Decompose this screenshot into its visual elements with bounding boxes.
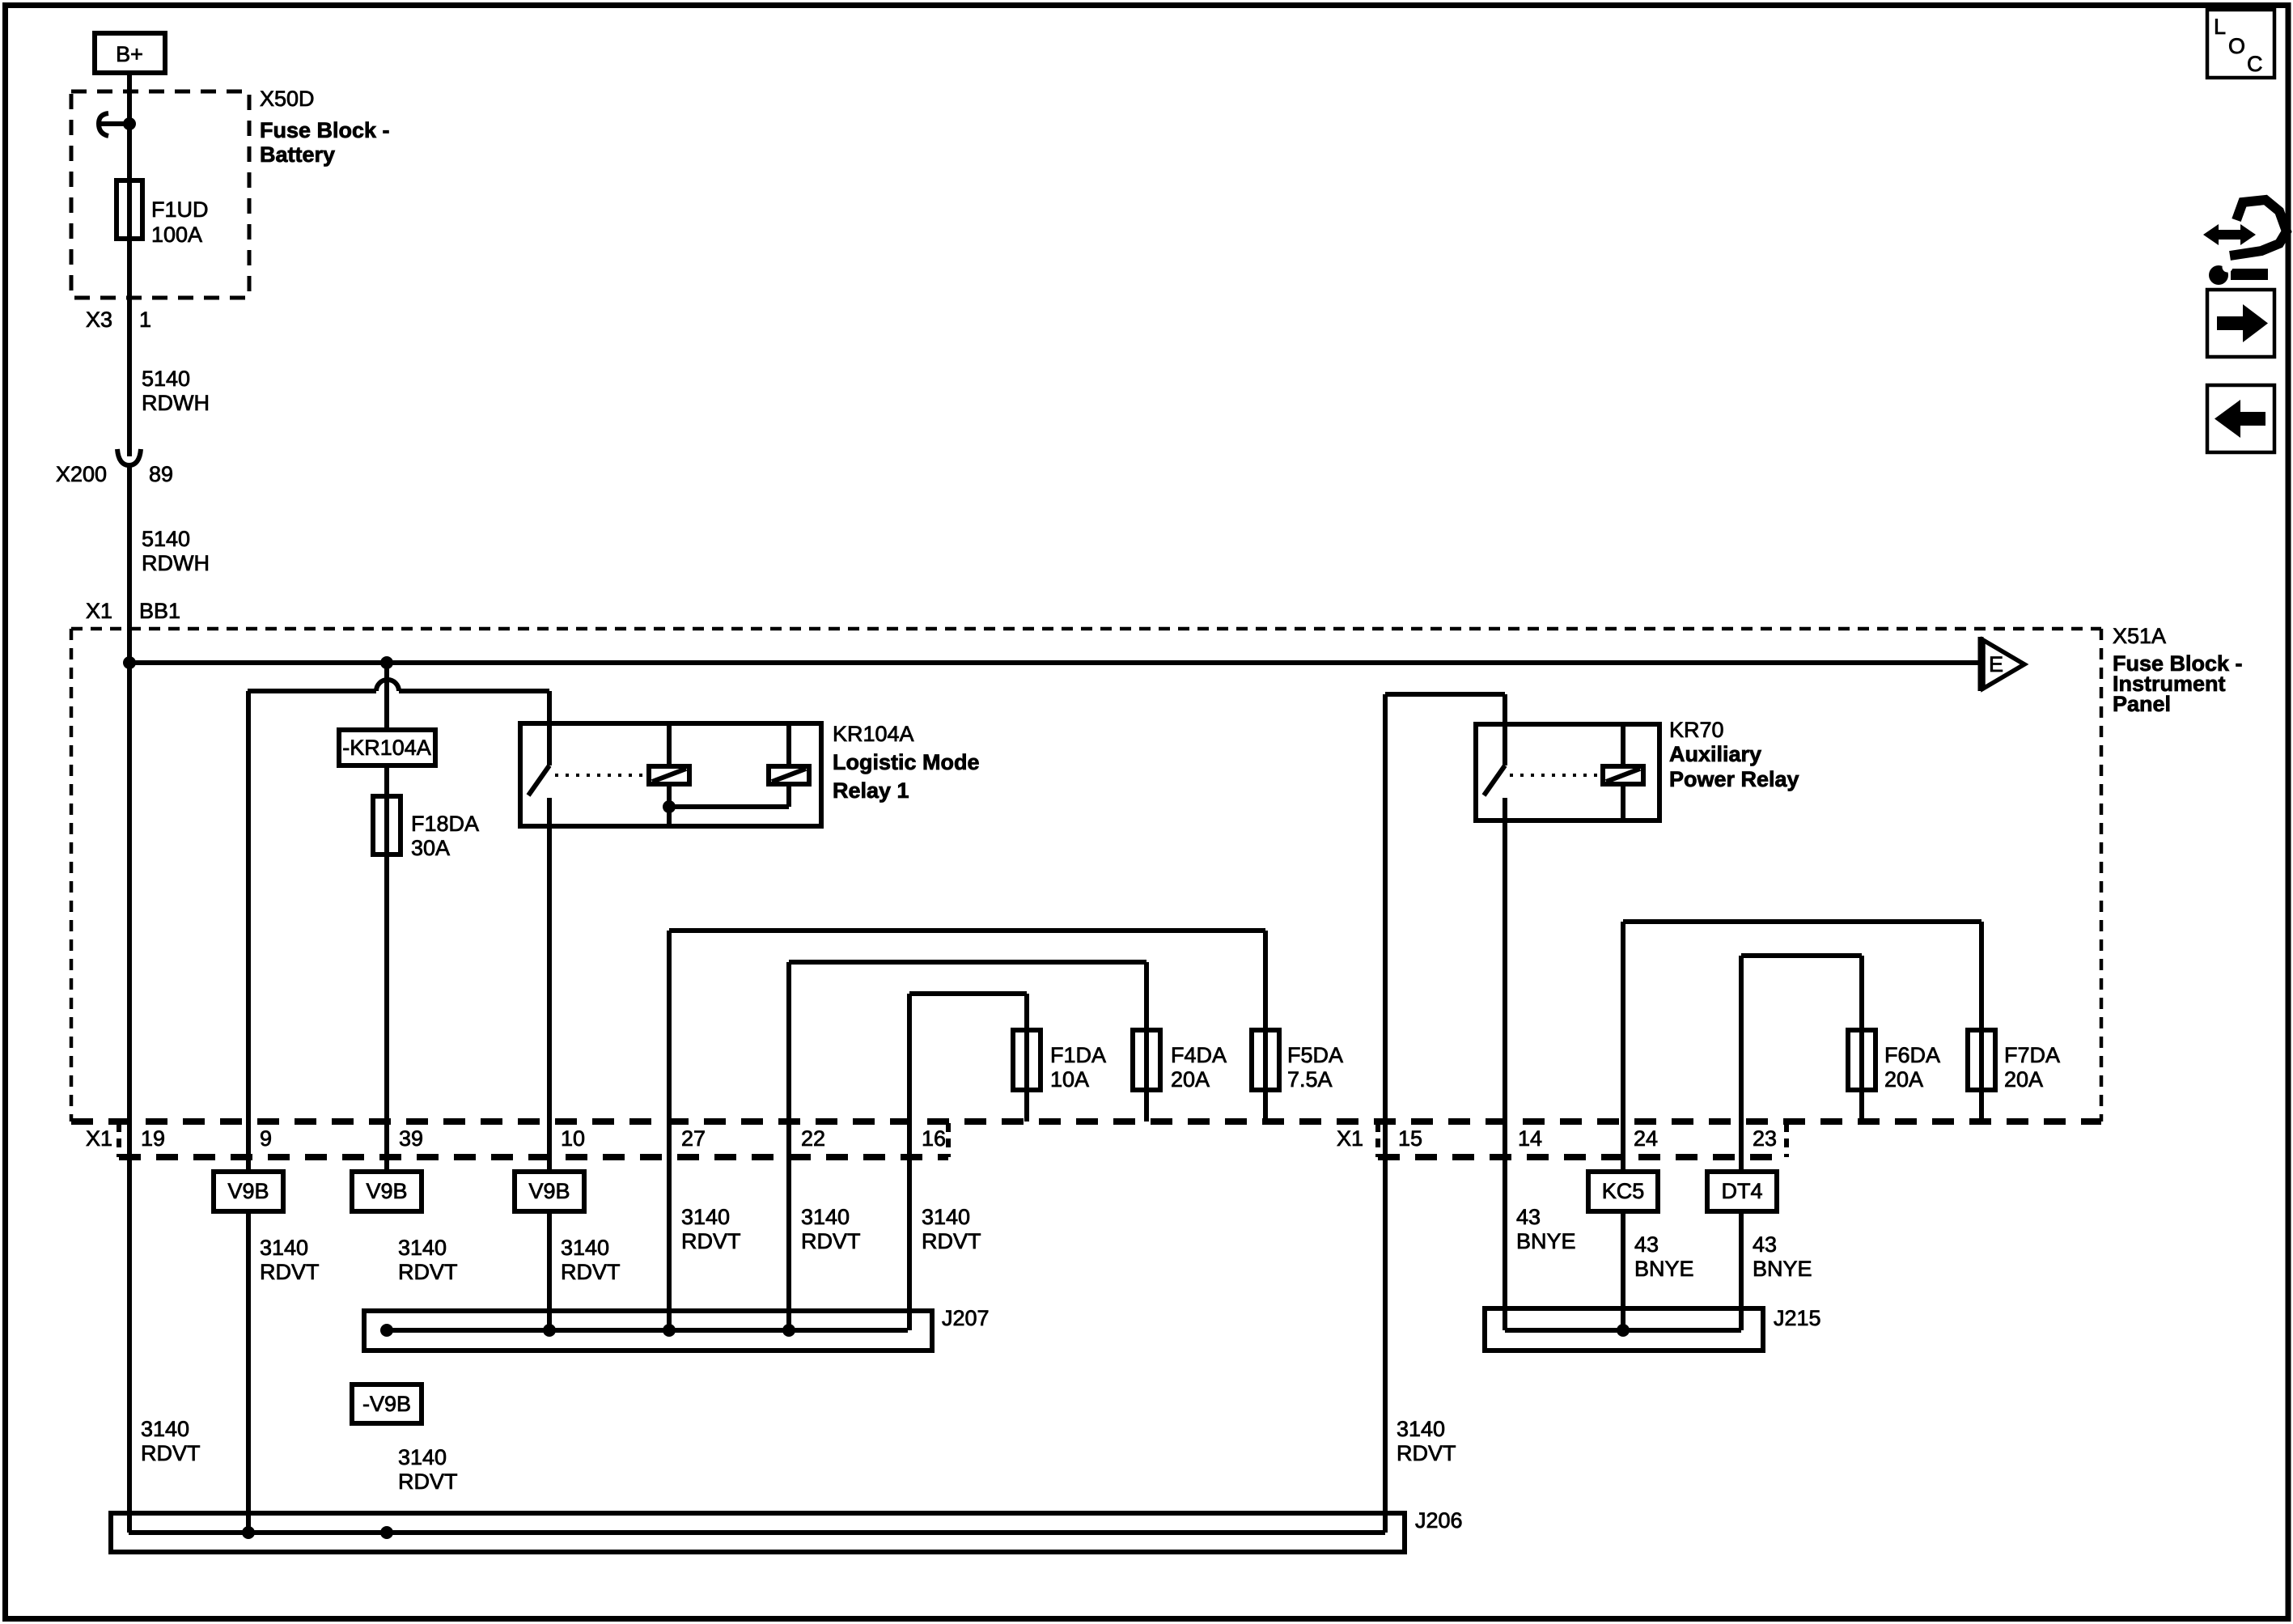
svg-text:24: 24 [1634, 1126, 1658, 1151]
junction dot bus left [123, 656, 136, 669]
svg-text:15: 15 [1398, 1126, 1422, 1151]
svg-text:RDVT: RDVT [561, 1260, 621, 1284]
off-page arrow E [1981, 637, 2024, 691]
svg-text:KR104A: KR104A [833, 722, 914, 746]
icon harness routing squiggle [2203, 200, 2287, 285]
wire staircase pin 23 to F6DA [1741, 956, 1862, 1122]
svg-text:RDVT: RDVT [1397, 1441, 1456, 1465]
option box DT4 pin 23 [1707, 1172, 1777, 1211]
wire staircase pin 16 to F1DA [909, 994, 1027, 1122]
svg-text:3140: 3140 [398, 1445, 447, 1469]
svg-text:X200: X200 [56, 462, 107, 486]
wire label 3140 RDVT pin 9 [260, 1236, 320, 1284]
svg-text:RDVT: RDVT [398, 1260, 458, 1284]
connector pins X1 BB1 [86, 599, 180, 623]
svg-text:RDWH: RDWH [142, 391, 210, 415]
wire relay KR70 output pin 14 [1503, 798, 1507, 1330]
svg-text:E: E [1989, 652, 2003, 676]
svg-text:43: 43 [1516, 1205, 1541, 1229]
svg-text:-KR104A: -KR104A [342, 736, 431, 760]
svg-text:43: 43 [1753, 1232, 1777, 1257]
svg-text:DT4: DT4 [1721, 1179, 1762, 1203]
fuse F18DA 30A [373, 796, 479, 860]
svg-text:3140: 3140 [141, 1417, 189, 1441]
wire pin 23 to J215 [1739, 1211, 1744, 1330]
label Fuse Block - Battery [260, 118, 390, 167]
svg-text:3140: 3140 [801, 1205, 850, 1229]
splice J206 [111, 1513, 1405, 1552]
svg-text:9: 9 [260, 1126, 272, 1151]
svg-text:16: 16 [922, 1126, 946, 1151]
junction dot at terminal [123, 117, 136, 130]
svg-text:3140: 3140 [922, 1205, 970, 1229]
icon arrow previous page [2207, 385, 2274, 452]
svg-text:RDVT: RDVT [922, 1229, 981, 1253]
svg-text:BNYE: BNYE [1516, 1229, 1576, 1253]
icon arrow next page [2207, 290, 2274, 357]
option box V9B pin 10 [515, 1172, 584, 1211]
splice J215 [1485, 1308, 1763, 1351]
svg-text:F4DA: F4DA [1171, 1043, 1227, 1067]
connector cap left [117, 1123, 121, 1157]
svg-text:C: C [2247, 52, 2263, 76]
svg-text:X50D: X50D [260, 87, 315, 111]
connector pins X3 1 [86, 307, 151, 332]
svg-text:RDVT: RDVT [681, 1229, 741, 1253]
svg-text:RDVT: RDVT [801, 1229, 861, 1253]
bus wire B+ feed [129, 660, 1981, 665]
svg-text:J206: J206 [1415, 1508, 1463, 1533]
svg-text:5140: 5140 [142, 367, 190, 391]
wire label 5140 RDWH [142, 527, 210, 575]
svg-text:22: 22 [801, 1126, 825, 1151]
svg-text:RDVT: RDVT [141, 1441, 201, 1465]
pin labels X1 left [86, 1126, 946, 1151]
svg-text:3140: 3140 [260, 1236, 308, 1260]
wire label 3140 RDVT pin 10 [561, 1236, 621, 1284]
wire pin 24 to J215 [1621, 1211, 1625, 1330]
wire label 3140 RDVT pin 39 [398, 1236, 458, 1284]
wire pin 23 down [1739, 956, 1744, 1172]
svg-text:V9B: V9B [366, 1179, 407, 1203]
svg-text:X1: X1 [86, 599, 112, 623]
connector X200 pin 89 [56, 449, 173, 486]
svg-text:RDVT: RDVT [260, 1260, 320, 1284]
svg-text:Logistic Mode: Logistic Mode [833, 750, 980, 774]
wire pin 15 down [1383, 694, 1388, 1533]
option box KC5 pin 24 [1588, 1172, 1658, 1211]
svg-text:Panel: Panel [2113, 692, 2171, 716]
svg-text:7.5A: 7.5A [1287, 1067, 1333, 1092]
label box -KR104A [339, 730, 435, 765]
wire pin 24 down [1621, 922, 1625, 1172]
connector cap right b [1784, 1123, 1789, 1157]
wire staircase pin 27 to F5DA [669, 931, 1265, 1122]
relay KR70 [1476, 724, 1659, 820]
svg-text:Relay 1: Relay 1 [833, 778, 909, 803]
wire pin 9 to J206 [246, 1211, 251, 1533]
svg-text:F1DA: F1DA [1050, 1043, 1106, 1067]
svg-text:30A: 30A [411, 836, 450, 860]
wire staircase pin 24 to F7DA [1623, 922, 1981, 1122]
svg-text:F18DA: F18DA [411, 812, 479, 836]
splice J207 [364, 1311, 932, 1351]
svg-text:5140: 5140 [142, 527, 190, 551]
svg-text:KC5: KC5 [1602, 1179, 1645, 1203]
option box V9B pin 39 [352, 1172, 422, 1211]
fuse F7DA 20A [1968, 1030, 2060, 1092]
svg-text:X1: X1 [1337, 1126, 1363, 1151]
wire pin 10 to J207 [547, 1211, 552, 1330]
svg-text:Battery: Battery [260, 142, 335, 167]
svg-text:V9B: V9B [227, 1179, 269, 1203]
legend box LOC [2207, 10, 2274, 78]
wire KR104A feed down [384, 663, 389, 730]
svg-text:1: 1 [139, 307, 151, 332]
wire to fuse F18DA [384, 765, 389, 1172]
wire bus continues down pin 19 [127, 663, 132, 1533]
svg-text:14: 14 [1518, 1126, 1542, 1151]
wire staircase pin 22 to F4DA [789, 962, 1146, 1122]
svg-text:L: L [2214, 15, 2226, 39]
wire branch left leg pin 9 [246, 691, 251, 1172]
wire pin 16 down [907, 994, 912, 1330]
wire B+ to fuse [127, 73, 132, 456]
fuse F6DA 20A [1848, 1030, 1940, 1092]
svg-text:27: 27 [681, 1126, 706, 1151]
svg-text:3140: 3140 [398, 1236, 447, 1260]
svg-text:20A: 20A [1171, 1067, 1210, 1092]
svg-text:B+: B+ [116, 42, 143, 66]
fuse F4DA 20A [1133, 1030, 1227, 1092]
wire X200 to bus [127, 466, 132, 663]
svg-text:3140: 3140 [1397, 1417, 1445, 1441]
option box -V9B [352, 1384, 422, 1423]
svg-text:43: 43 [1634, 1232, 1659, 1257]
junction dot bus KR104A feed [380, 656, 393, 669]
connector X1 row dashed line bottom right [1378, 1154, 1787, 1160]
fuse F1DA 10A [1013, 1030, 1106, 1092]
svg-text:X1: X1 [86, 1126, 112, 1151]
wire label 3140 RDVT pin 22 [801, 1205, 861, 1253]
pin labels X1 right [1337, 1126, 1777, 1151]
svg-text:89: 89 [149, 462, 173, 486]
svg-text:39: 39 [399, 1126, 423, 1151]
fuse F5DA 7.5A [1252, 1030, 1343, 1092]
wire branch right leg to relay [547, 691, 552, 723]
svg-text:3140: 3140 [561, 1236, 609, 1260]
svg-text:J215: J215 [1774, 1306, 1821, 1330]
svg-text:J207: J207 [942, 1306, 990, 1330]
wire label 5140 RDWH [142, 367, 210, 415]
svg-text:RDVT: RDVT [398, 1469, 458, 1494]
svg-text:Auxiliary: Auxiliary [1669, 742, 1761, 766]
label KR70 Auxiliary Power Relay [1669, 718, 1799, 791]
svg-text:X51A: X51A [2113, 624, 2166, 648]
svg-text:23: 23 [1753, 1126, 1777, 1151]
svg-text:Fuse Block -: Fuse Block - [260, 118, 390, 142]
svg-text:19: 19 [141, 1126, 165, 1151]
wire label 3140 RDVT pin 16 [922, 1205, 981, 1253]
svg-text:F1UD: F1UD [151, 197, 209, 222]
relay KR104A [520, 723, 821, 826]
connector cap right a [1375, 1123, 1380, 1157]
svg-text:Power Relay: Power Relay [1669, 767, 1799, 791]
svg-text:10A: 10A [1050, 1067, 1089, 1092]
svg-text:20A: 20A [2004, 1067, 2043, 1092]
wire label 43 BNYE pin 24 [1634, 1232, 1694, 1281]
wire label 43 BNYE pin 14 [1516, 1205, 1576, 1253]
fuse block instrument panel box X51A [71, 629, 2101, 1122]
svg-text:V9B: V9B [528, 1179, 570, 1203]
svg-text:20A: 20A [1884, 1067, 1923, 1092]
svg-text:O: O [2228, 34, 2245, 58]
svg-text:F5DA: F5DA [1287, 1043, 1343, 1067]
connector X1 row dashed line top [71, 1118, 2101, 1125]
power node B+ [95, 33, 165, 73]
wire label 3140 RDVT pin 19 [141, 1417, 201, 1465]
wire relay KR104A output pin 10 [547, 798, 552, 1172]
option box V9B pin 9 [214, 1172, 283, 1211]
connector cap mid [946, 1123, 951, 1157]
label Fuse Block - Instrument Panel [2113, 651, 2243, 716]
fuse block battery box X50D [71, 91, 249, 298]
svg-text:X3: X3 [86, 307, 112, 332]
svg-text:100A: 100A [151, 223, 202, 247]
svg-text:BNYE: BNYE [1753, 1257, 1812, 1281]
svg-text:F7DA: F7DA [2004, 1043, 2060, 1067]
svg-text:-V9B: -V9B [362, 1392, 411, 1416]
wire label 3140 RDVT pin 15 [1397, 1417, 1456, 1465]
svg-text:10: 10 [561, 1126, 585, 1151]
svg-text:F6DA: F6DA [1884, 1043, 1940, 1067]
wire label 3140 RDVT pin 27 [681, 1205, 741, 1253]
svg-text:KR70: KR70 [1669, 718, 1724, 742]
fuse F1UD 100A [117, 180, 209, 247]
svg-text:BB1: BB1 [139, 599, 180, 623]
wire label 3140 RDVT below -V9B [398, 1445, 458, 1494]
terminal clip [99, 113, 129, 136]
connector X1 row dashed line bottom left [119, 1154, 948, 1160]
wire pin 22 down [786, 962, 791, 1330]
wire label 43 BNYE pin 23 [1753, 1232, 1812, 1281]
svg-text:RDWH: RDWH [142, 551, 210, 575]
wire pin 27 down [667, 931, 672, 1330]
svg-text:3140: 3140 [681, 1205, 730, 1229]
wire KR70 feed bridge [1385, 694, 1505, 765]
svg-text:BNYE: BNYE [1634, 1257, 1694, 1281]
label KR104A Logistic Mode Relay 1 [833, 722, 980, 803]
wire branch with hop over KR104A feed [248, 680, 549, 691]
